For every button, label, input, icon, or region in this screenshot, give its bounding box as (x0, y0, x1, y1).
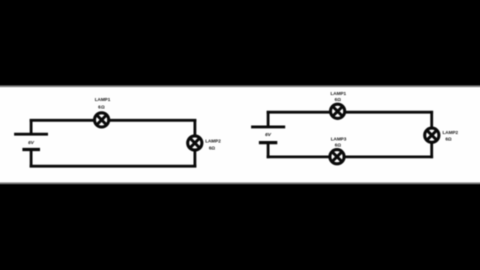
wire: left loop left side upper (to battery + plate) (30, 119, 33, 134)
svg-text:LAMP2: LAMP2 (205, 139, 221, 144)
wire: left loop right side (193, 119, 196, 168)
wire: right loop bottom side (267, 155, 433, 158)
svg-text:LAMP3: LAMP3 (331, 137, 347, 142)
wire: left loop bottom side (30, 165, 197, 168)
svg-text:6Ω: 6Ω (445, 137, 452, 142)
svg-text:6Ω: 6Ω (335, 97, 342, 102)
wire: right loop left side lower (from battery - plate) (267, 143, 270, 159)
svg-text:6Ω: 6Ω (209, 145, 216, 150)
wire: right loop top side (267, 111, 433, 114)
svg-text:LAMP2: LAMP2 (443, 130, 459, 135)
wire: left loop left side lower (from battery - plate) (30, 150, 33, 168)
svg-text:LAMP1: LAMP1 (95, 97, 111, 102)
svg-text:LAMP1: LAMP1 (331, 91, 347, 96)
lamp LAMP1 (left circuit, top wire) (95, 113, 109, 127)
svg-text:6Ω: 6Ω (98, 104, 105, 109)
svg-text:6V: 6V (265, 132, 272, 138)
wire: right loop right side (430, 111, 433, 158)
wire: right loop left side upper (to battery + plate) (267, 111, 270, 127)
battery B1 negative plate (short) (22, 148, 40, 151)
svg-text:6V: 6V (28, 140, 35, 146)
battery B1 positive plate (long) (14, 133, 48, 136)
battery B2 positive plate (long) (251, 125, 285, 128)
wire: left loop top side (30, 119, 197, 122)
lamp LAMP2 (left circuit, right side) (188, 136, 202, 150)
lamp LAMP1 (right circuit, top wire) (331, 104, 345, 118)
battery B2 negative plate (short) (259, 141, 277, 144)
lamp LAMP2 (right circuit, right side) (425, 128, 439, 142)
svg-text:6Ω: 6Ω (335, 142, 342, 147)
lamp LAMP3 (right circuit, bottom wire) (330, 150, 344, 164)
